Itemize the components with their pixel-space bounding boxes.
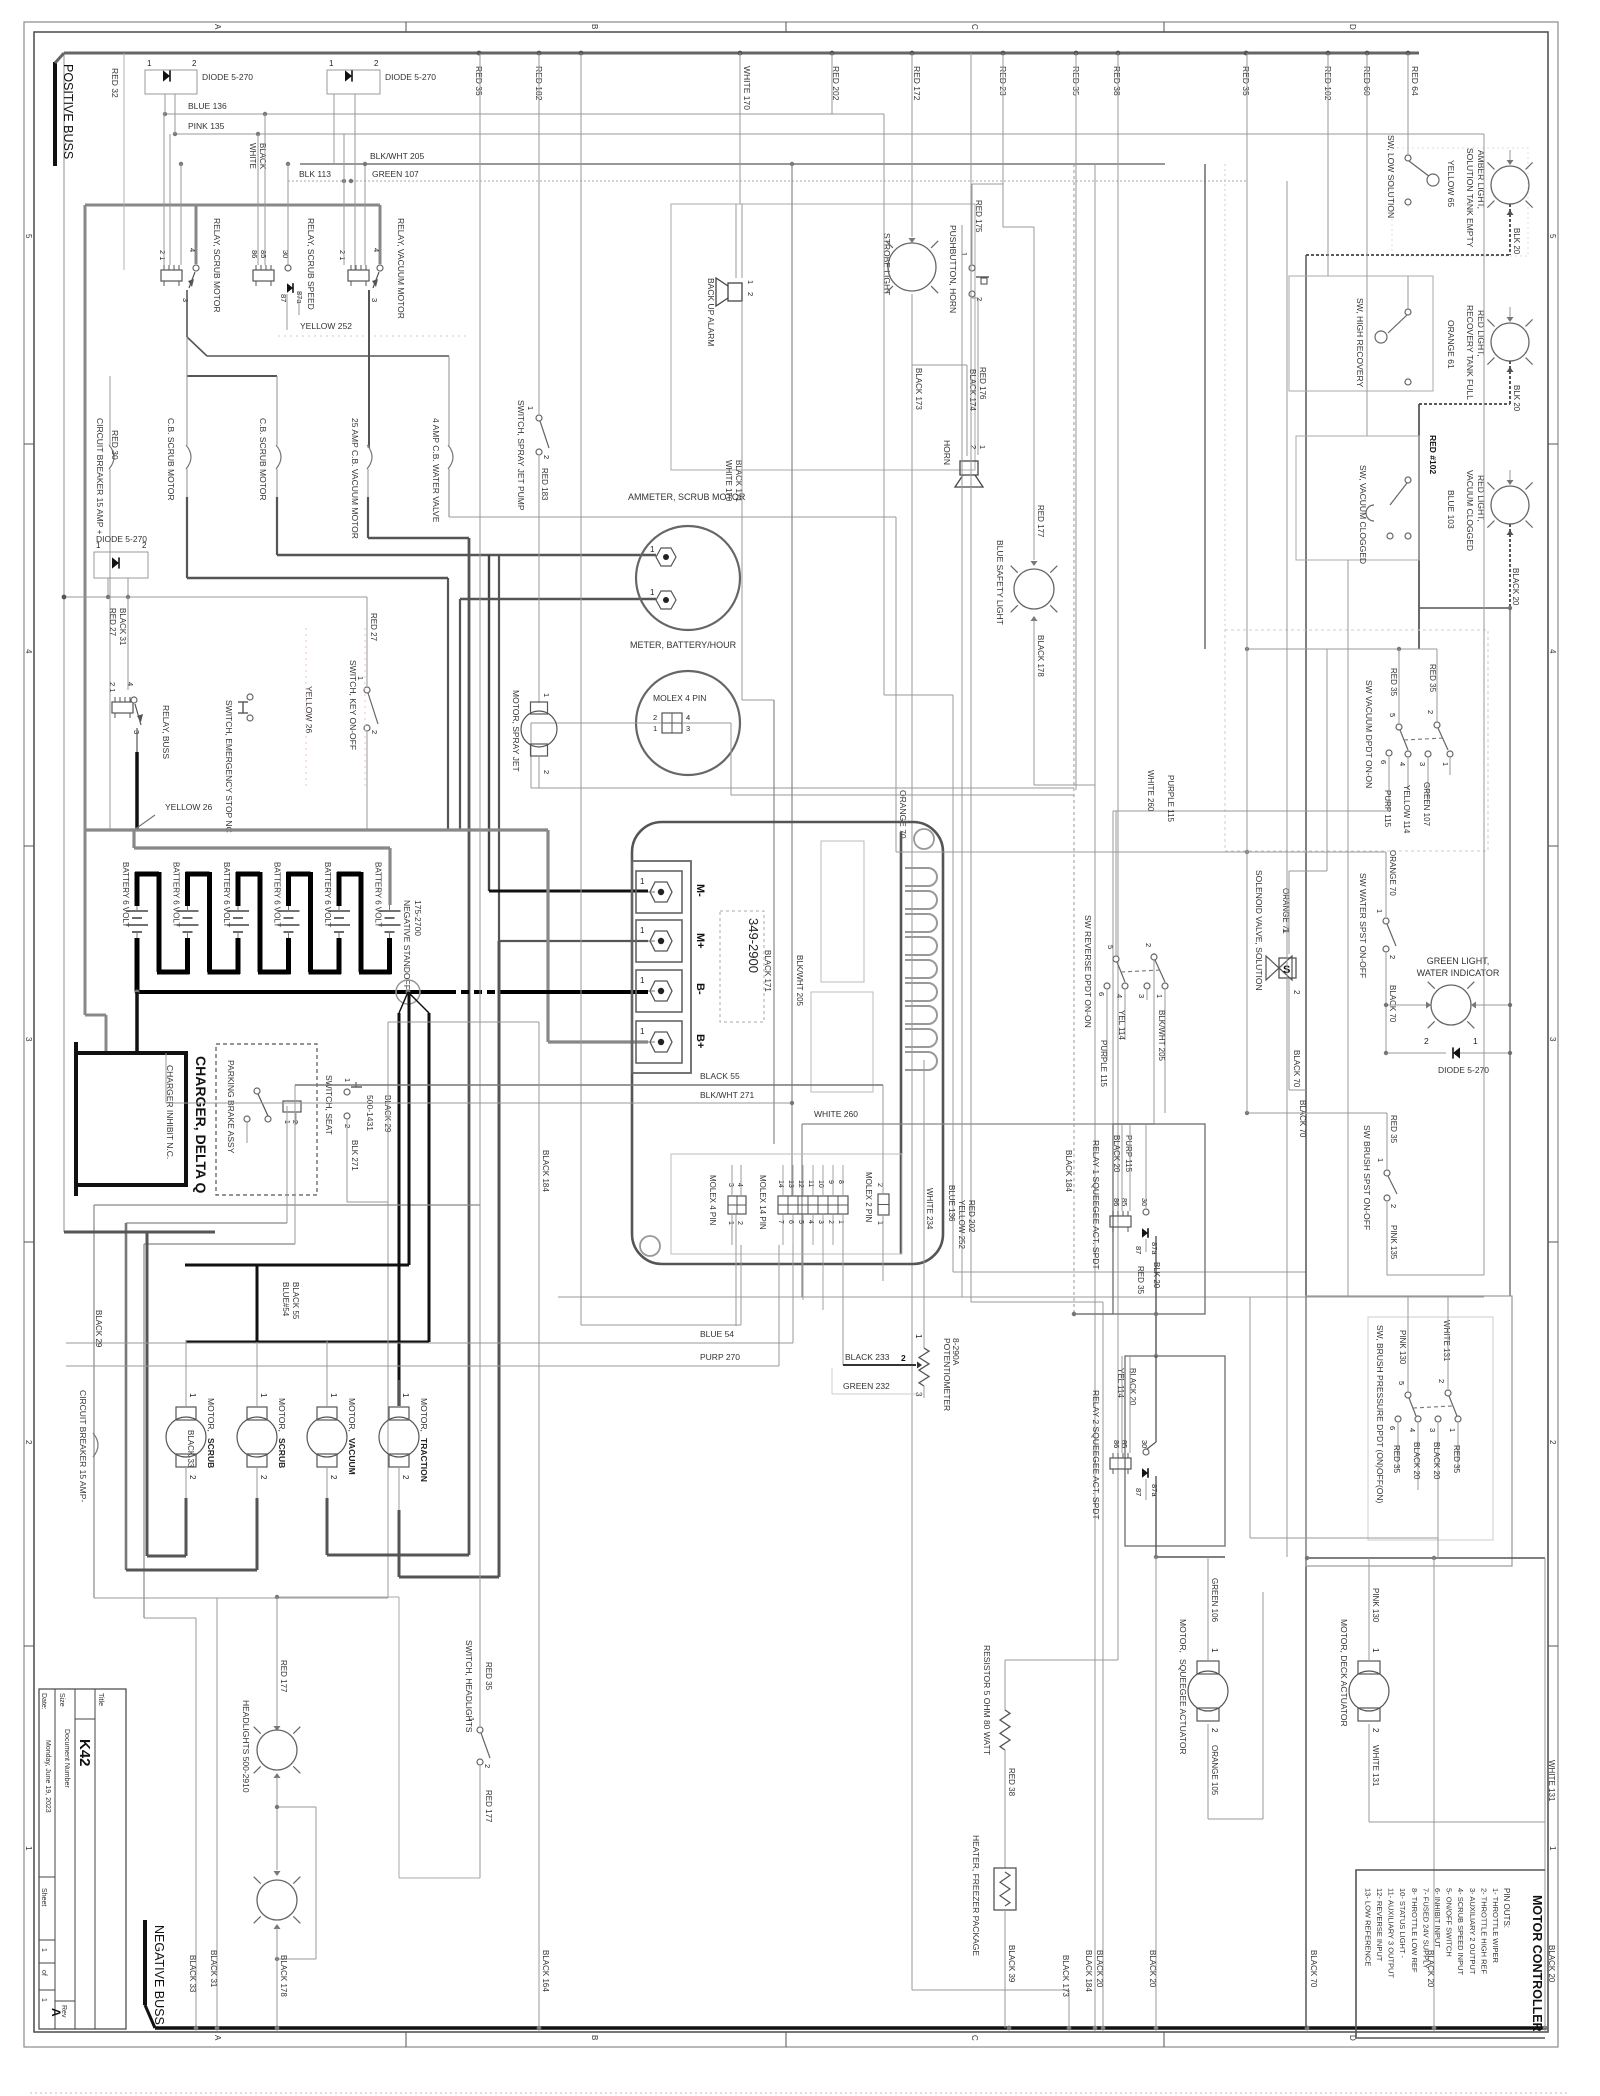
svg-text:BLUE#54: BLUE#54	[281, 1282, 290, 1317]
svg-text:3: 3	[24, 1037, 33, 1042]
svg-text:25 AMP C.B. VACUUM MOTOR: 25 AMP C.B. VACUUM MOTOR	[350, 418, 360, 539]
svg-text:SW WATER SPST ON-OFF: SW WATER SPST ON-OFF	[1358, 873, 1368, 978]
svg-text:2: 2	[1389, 1204, 1398, 1208]
svg-text:DIODE 5-270: DIODE 5-270	[1438, 1065, 1489, 1075]
svg-text:2: 2	[329, 1475, 338, 1480]
svg-text:BLK 113: BLK 113	[299, 169, 331, 179]
svg-text:1: 1	[640, 926, 645, 935]
svg-text:MOTOR,: MOTOR,	[277, 1398, 287, 1432]
svg-text:TRACTION: TRACTION	[419, 1438, 429, 1482]
svg-text:SW, BRUSH PRESSURE DPDT (ON)OF: SW, BRUSH PRESSURE DPDT (ON)OFF(ON)	[1375, 1325, 1385, 1504]
svg-text:2: 2	[1437, 1379, 1446, 1383]
svg-text:MOTOR, DECK ACTUATOR: MOTOR, DECK ACTUATOR	[1339, 1619, 1349, 1727]
svg-text:2: 2	[1388, 955, 1397, 959]
svg-text:BLACK: BLACK	[258, 143, 267, 170]
svg-text:A: A	[49, 2008, 63, 2017]
svg-text:A: A	[213, 24, 222, 30]
svg-text:BLACK 70: BLACK 70	[1292, 1050, 1301, 1088]
svg-text:RED 175: RED 175	[974, 200, 983, 233]
svg-text:M+: M+	[694, 933, 706, 949]
svg-text:RED 30: RED 30	[110, 430, 120, 460]
svg-text:BATTERY 6 VOLT: BATTERY 6 VOLT	[121, 862, 130, 927]
svg-text:YELLOW 26: YELLOW 26	[165, 802, 213, 812]
svg-text:RELAY 2 SQUEEGEE ACT. SPDT: RELAY 2 SQUEEGEE ACT. SPDT	[1091, 1390, 1101, 1520]
svg-text:6: 6	[1388, 1426, 1397, 1430]
svg-text:1: 1	[960, 252, 969, 256]
svg-text:349-2900: 349-2900	[746, 918, 761, 973]
svg-text:1: 1	[653, 724, 657, 733]
svg-text:1: 1	[467, 1717, 476, 1721]
svg-text:BLACK 20: BLACK 20	[1148, 1950, 1157, 1988]
svg-text:1: 1	[1448, 1428, 1457, 1432]
svg-text:1: 1	[542, 693, 551, 697]
svg-text:RED 38: RED 38	[1112, 66, 1122, 96]
svg-text:METER, BATTERY/HOUR: METER, BATTERY/HOUR	[630, 640, 737, 650]
svg-text:500-1431: 500-1431	[365, 1095, 375, 1131]
svg-text:3: 3	[1548, 1037, 1557, 1042]
svg-text:2: 2	[1548, 1440, 1557, 1445]
svg-text:YELLOW 65: YELLOW 65	[1446, 160, 1456, 208]
svg-text:YEL 114: YEL 114	[1116, 1368, 1125, 1398]
svg-text:RED 35: RED 35	[1392, 1445, 1401, 1474]
svg-text:PINK 130: PINK 130	[1371, 1588, 1380, 1623]
svg-text:2: 2	[1210, 1728, 1219, 1733]
svg-text:BLK 20: BLK 20	[1512, 385, 1521, 412]
svg-text:PURP 115: PURP 115	[1124, 1135, 1133, 1173]
svg-text:6: 6	[1379, 760, 1388, 764]
svg-text:1: 1	[727, 1221, 734, 1225]
svg-text:RELAY, VACUUM MOTOR: RELAY, VACUUM MOTOR	[396, 218, 406, 319]
svg-text:B: B	[590, 2035, 599, 2040]
svg-text:SWITCH, EMERGENCY STOP NC: SWITCH, EMERGENCY STOP NC	[224, 700, 234, 833]
svg-text:WHITE 234: WHITE 234	[925, 1188, 934, 1230]
svg-text:BLACK 173: BLACK 173	[1061, 1955, 1070, 1997]
svg-text:HEADLIGHTS 500-2910: HEADLIGHTS 500-2910	[241, 1700, 251, 1793]
svg-text:BLUE 103: BLUE 103	[1446, 490, 1456, 529]
svg-text:C: C	[970, 2035, 979, 2041]
svg-text:C.B. SCRUB MOTOR: C.B. SCRUB MOTOR	[258, 418, 268, 501]
svg-text:SW VACUUM DPDT ON-ON: SW VACUUM DPDT ON-ON	[1364, 680, 1374, 788]
svg-text:M-: M-	[694, 884, 706, 897]
svg-text:WHITE 170: WHITE 170	[724, 460, 733, 502]
svg-text:1: 1	[356, 676, 365, 680]
svg-text:PIN OUTS:: PIN OUTS:	[1502, 1888, 1511, 1928]
svg-text:2: 2	[188, 1475, 197, 1480]
svg-text:1: 1	[1376, 1158, 1385, 1162]
svg-text:BLACK 20: BLACK 20	[1511, 568, 1520, 606]
svg-text:3: 3	[1137, 994, 1146, 998]
svg-text:1: 1	[1441, 762, 1450, 766]
svg-text:1: 1	[343, 1078, 352, 1082]
svg-text:BATTERY 6 VOLT: BATTERY 6 VOLT	[172, 862, 181, 927]
svg-text:SQUEEGEE ACTUATOR: SQUEEGEE ACTUATOR	[1178, 1659, 1188, 1755]
svg-text:BLUE 136: BLUE 136	[947, 1185, 956, 1222]
svg-text:BLACK 70: BLACK 70	[1309, 1950, 1318, 1988]
svg-text:5: 5	[1548, 234, 1557, 239]
svg-text:SOLENOID VALVE, SOLUTION: SOLENOID VALVE, SOLUTION	[1254, 870, 1264, 991]
svg-text:DIODE 5-270: DIODE 5-270	[202, 72, 253, 82]
svg-text:SW, HIGH RECOVERY: SW, HIGH RECOVERY	[1355, 298, 1365, 387]
svg-text:6: 6	[1097, 992, 1106, 996]
svg-text:MOTOR,: MOTOR,	[1178, 1619, 1188, 1653]
svg-text:Sheet: Sheet	[40, 1888, 47, 1906]
svg-text:4: 4	[24, 649, 33, 654]
svg-text:4: 4	[686, 713, 690, 722]
svg-text:2: 2	[370, 730, 379, 734]
svg-text:BLK/WHT 205: BLK/WHT 205	[370, 151, 424, 161]
svg-text:1- THROTTLE WIPER: 1- THROTTLE WIPER	[1491, 1888, 1500, 1963]
svg-text:SW REVERSE DPDT ON-ON: SW REVERSE DPDT ON-ON	[1083, 915, 1093, 1028]
svg-text:4: 4	[1398, 762, 1407, 766]
svg-text:1: 1	[978, 445, 987, 449]
svg-text:HORN: HORN	[942, 440, 952, 465]
svg-text:87a: 87a	[1150, 1484, 1159, 1497]
svg-text:1: 1	[526, 406, 535, 410]
svg-text:4 AMP C.B. WATER VALVE: 4 AMP C.B. WATER VALVE	[431, 418, 441, 523]
svg-text:5: 5	[1397, 1381, 1406, 1385]
svg-text:BLACK 20: BLACK 20	[1112, 1135, 1121, 1173]
svg-text:1: 1	[1375, 909, 1384, 913]
svg-text:Document Number: Document Number	[63, 1729, 70, 1788]
svg-text:MOLEX 14 PIN: MOLEX 14 PIN	[758, 1175, 767, 1230]
svg-text:HEATER, FREEZER PACKAGE: HEATER, FREEZER PACKAGE	[971, 1835, 981, 1956]
svg-text:2: 2	[1426, 710, 1435, 714]
svg-text:2: 2	[542, 770, 551, 774]
svg-text:DIODE 5-270: DIODE 5-270	[385, 72, 436, 82]
svg-text:CHARGER, DELTA Q: CHARGER, DELTA Q	[193, 1056, 209, 1194]
svg-text:BACK UP ALARM: BACK UP ALARM	[706, 278, 716, 346]
svg-text:30: 30	[1140, 1198, 1149, 1206]
svg-text:1: 1	[1210, 1648, 1219, 1653]
svg-text:86: 86	[1112, 1440, 1121, 1448]
svg-text:30: 30	[281, 250, 290, 258]
svg-text:5: 5	[24, 234, 33, 239]
svg-text:YEL 114: YEL 114	[1117, 1010, 1126, 1040]
svg-text:4: 4	[1408, 1428, 1417, 1432]
svg-text:RED 27: RED 27	[108, 608, 117, 637]
svg-text:of: of	[40, 1970, 47, 1976]
svg-text:RED 202: RED 202	[967, 1200, 976, 1233]
svg-text:ORANGE 70: ORANGE 70	[898, 790, 908, 839]
svg-text:A: A	[213, 2035, 222, 2041]
svg-text:3: 3	[727, 1183, 734, 1187]
svg-text:BLK 271: BLK 271	[350, 1140, 359, 1171]
svg-text:2: 2	[259, 1475, 268, 1480]
svg-text:RED 35: RED 35	[484, 1662, 493, 1691]
svg-text:MOTOR CONTROLLER: MOTOR CONTROLLER	[1530, 1895, 1544, 2032]
svg-text:MOTOR,: MOTOR,	[206, 1398, 216, 1432]
svg-text:1: 1	[40, 1998, 47, 2002]
svg-text:BLK 20: BLK 20	[1512, 228, 1521, 255]
svg-text:GREEN 106: GREEN 106	[1210, 1578, 1219, 1623]
svg-text:BATTERY 6 VOLT: BATTERY 6 VOLT	[222, 862, 231, 927]
svg-text:2: 2	[736, 1221, 743, 1225]
svg-text:PURPLE 115: PURPLE 115	[1166, 775, 1175, 823]
svg-text:BLACK 31: BLACK 31	[118, 608, 127, 646]
svg-text:MOLEX 2 PIN: MOLEX 2 PIN	[864, 1172, 873, 1222]
svg-text:BLACK 178: BLACK 178	[279, 1955, 288, 1997]
svg-text:1: 1	[329, 1393, 338, 1398]
svg-text:1: 1	[914, 1334, 923, 1339]
svg-text:C: C	[970, 24, 979, 30]
svg-text:GREEN 107: GREEN 107	[372, 169, 419, 179]
svg-text:SWITCH, SPRAY JET PUMP: SWITCH, SPRAY JET PUMP	[516, 400, 526, 511]
svg-text:SW, LOW SOLUTION: SW, LOW SOLUTION	[1386, 135, 1396, 218]
svg-text:PARKING BRAKE ASSY: PARKING BRAKE ASSY	[226, 1060, 236, 1154]
svg-text:4: 4	[372, 248, 381, 252]
svg-text:ORANGE 61: ORANGE 61	[1446, 320, 1456, 369]
svg-text:2: 2	[746, 292, 755, 296]
svg-text:RED 35: RED 35	[1428, 664, 1437, 693]
svg-text:WHITE 170: WHITE 170	[742, 66, 752, 110]
svg-text:BATTERY 6 VOLT: BATTERY 6 VOLT	[273, 862, 282, 927]
svg-text:WHITE 260: WHITE 260	[1146, 770, 1155, 812]
svg-text:Size: Size	[58, 1693, 65, 1707]
svg-text:BLACK 164: BLACK 164	[541, 1950, 550, 1992]
svg-text:VACUUM: VACUUM	[347, 1438, 357, 1475]
svg-text:GREEN 232: GREEN 232	[843, 1381, 890, 1391]
svg-text:3: 3	[686, 724, 690, 733]
svg-text:BLACK 174: BLACK 174	[968, 369, 977, 411]
svg-text:SWITCH, KEY ON-OFF: SWITCH, KEY ON-OFF	[348, 660, 358, 750]
svg-text:BLACK 55: BLACK 55	[291, 1282, 300, 1320]
svg-text:6- INHIBIT INPUT: 6- INHIBIT INPUT	[1433, 1888, 1442, 1948]
svg-text:RED 64: RED 64	[1410, 66, 1420, 96]
svg-text:87a: 87a	[1150, 1242, 1159, 1255]
svg-text:BLUE SAFETY LIGHT: BLUE SAFETY LIGHT	[995, 540, 1005, 625]
svg-text:YELLOW 114: YELLOW 114	[1402, 785, 1411, 834]
svg-text:2 1: 2 1	[108, 682, 117, 692]
svg-text:BLACK 20: BLACK 20	[1412, 1442, 1421, 1480]
svg-text:1: 1	[640, 976, 645, 985]
svg-text:12- REVERSE INPUT: 12- REVERSE INPUT	[1375, 1888, 1384, 1962]
svg-text:YELLOW 252: YELLOW 252	[957, 1200, 966, 1249]
svg-text:1: 1	[147, 59, 152, 68]
svg-text:BLACK 70: BLACK 70	[1298, 1100, 1307, 1138]
svg-text:BLK/WHT 271: BLK/WHT 271	[700, 1090, 754, 1100]
svg-text:SWITCH, SEAT: SWITCH, SEAT	[324, 1075, 334, 1135]
svg-text:RED 32: RED 32	[110, 68, 120, 98]
svg-text:GREEN 107: GREEN 107	[1422, 782, 1431, 827]
svg-text:2: 2	[483, 1764, 492, 1768]
svg-text:POSITIVE BUSS: POSITIVE BUSS	[61, 64, 75, 159]
svg-text:RELAY, BUSS: RELAY, BUSS	[161, 705, 171, 759]
svg-text:BLACK 33: BLACK 33	[186, 1430, 195, 1468]
svg-text:MOTOR,: MOTOR,	[419, 1398, 429, 1432]
svg-text:87: 87	[1134, 1246, 1143, 1254]
svg-text:4: 4	[188, 248, 197, 252]
svg-text:MOTOR, SPRAY JET: MOTOR, SPRAY JET	[511, 690, 521, 772]
svg-text:Title: Title	[97, 1693, 104, 1706]
svg-text:PINK 130: PINK 130	[1398, 1330, 1407, 1365]
svg-text:2: 2	[401, 1475, 410, 1480]
svg-text:WHITE 131: WHITE 131	[1547, 1760, 1556, 1802]
svg-text:30: 30	[1140, 1440, 1149, 1448]
svg-text:1: 1	[1548, 1846, 1557, 1851]
svg-text:1: 1	[650, 545, 655, 554]
svg-text:WHITE 131: WHITE 131	[1442, 1320, 1451, 1362]
svg-text:2: 2	[1371, 1728, 1380, 1733]
svg-text:BLK/WHT 205: BLK/WHT 205	[795, 955, 804, 1007]
svg-text:BLACK 70: BLACK 70	[1388, 985, 1397, 1023]
svg-text:NEGATIVE BUSS: NEGATIVE BUSS	[152, 1925, 166, 2025]
svg-text:BLACK 233: BLACK 233	[845, 1352, 890, 1362]
svg-text:2: 2	[653, 713, 657, 722]
svg-text:2: 2	[24, 1440, 33, 1445]
svg-text:10- STATUS LIGHT -: 10- STATUS LIGHT -	[1398, 1888, 1407, 1959]
svg-text:BLACK 55: BLACK 55	[700, 1071, 740, 1081]
svg-text:SCRUB: SCRUB	[206, 1438, 216, 1468]
svg-text:Monday, June 19, 2023: Monday, June 19, 2023	[44, 1740, 51, 1813]
svg-text:2: 2	[1424, 1036, 1429, 1046]
svg-text:2: 2	[374, 59, 379, 68]
svg-text:PINK 135: PINK 135	[188, 121, 225, 131]
svg-text:RED 38: RED 38	[1007, 1768, 1016, 1797]
svg-text:2 1: 2 1	[158, 250, 167, 260]
svg-text:1: 1	[650, 588, 655, 597]
svg-text:BLUE 136: BLUE 136	[188, 101, 227, 111]
svg-text:WHITE 131: WHITE 131	[1371, 1745, 1380, 1787]
svg-text:11- AUXILIARY 3 OUTPUT: 11- AUXILIARY 3 OUTPUT	[1387, 1888, 1396, 1978]
svg-text:K42: K42	[76, 1739, 93, 1767]
svg-text:RELAY 1 SQUEEGEE ACT. SPDT: RELAY 1 SQUEEGEE ACT. SPDT	[1091, 1140, 1101, 1270]
svg-text:1: 1	[1155, 994, 1164, 998]
svg-text:SW BRUSH SPST ON-OFF: SW BRUSH SPST ON-OFF	[1362, 1125, 1372, 1230]
svg-text:ORANGE 105: ORANGE 105	[1210, 1745, 1219, 1796]
svg-text:BLACK 184: BLACK 184	[1064, 1150, 1073, 1192]
svg-text:MOLEX 4 PIN: MOLEX 4 PIN	[708, 1175, 717, 1225]
svg-text:C.B. SCRUB MOTOR: C.B. SCRUB MOTOR	[166, 418, 176, 501]
svg-text:RELAY, SCRUB MOTOR: RELAY, SCRUB MOTOR	[212, 218, 222, 312]
svg-text:175-2700: 175-2700	[413, 900, 423, 936]
svg-text:RED 27: RED 27	[369, 613, 378, 642]
svg-text:WATER INDICATOR: WATER INDICATOR	[1417, 968, 1500, 978]
svg-text:5: 5	[1388, 713, 1397, 717]
svg-text:2: 2	[192, 59, 197, 68]
svg-text:3: 3	[1418, 762, 1427, 766]
svg-text:MOLEX 4 PIN: MOLEX 4 PIN	[653, 693, 706, 703]
svg-text:BLACK 184: BLACK 184	[1084, 1950, 1093, 1992]
svg-text:RED 35: RED 35	[474, 66, 484, 96]
svg-text:1: 1	[876, 1221, 883, 1225]
svg-text:1: 1	[746, 280, 755, 284]
svg-text:RELAY, SCRUB SPEED: RELAY, SCRUB SPEED	[306, 218, 316, 310]
svg-text:3: 3	[370, 298, 379, 302]
svg-text:BLACK 178: BLACK 178	[1036, 635, 1045, 677]
svg-text:4: 4	[1548, 649, 1557, 654]
svg-text:5: 5	[1106, 945, 1115, 949]
svg-text:GREEN LIGHT,: GREEN LIGHT,	[1427, 956, 1490, 966]
svg-text:1: 1	[640, 1027, 645, 1036]
svg-text:BLACK 20: BLACK 20	[1432, 1442, 1441, 1480]
svg-text:CIRCUIT BREAKER 15 AMP +: CIRCUIT BREAKER 15 AMP +	[95, 418, 105, 535]
svg-text:YELLOW 26: YELLOW 26	[304, 686, 314, 734]
svg-text:MOTOR,: MOTOR,	[347, 1398, 357, 1432]
svg-text:B: B	[590, 24, 599, 29]
svg-text:ORANGE 70: ORANGE 70	[1388, 850, 1397, 896]
svg-text:B+: B+	[694, 1034, 706, 1048]
svg-text:BLACK 31: BLACK 31	[209, 1950, 218, 1988]
svg-text:BLACK 20: BLACK 20	[1547, 1945, 1556, 1983]
svg-text:1: 1	[1371, 1648, 1380, 1653]
svg-text:BLK/WHT 205: BLK/WHT 205	[1157, 1010, 1166, 1062]
svg-text:NEGATIVE STANDOFF: NEGATIVE STANDOFF	[402, 900, 412, 990]
svg-text:WHITE 260: WHITE 260	[814, 1109, 858, 1119]
svg-text:BLACK 20: BLACK 20	[1095, 1950, 1104, 1988]
svg-text:1: 1	[329, 59, 334, 68]
svg-text:BLK 20: BLK 20	[1152, 1262, 1161, 1289]
svg-text:PUSHBUTTON, HORN: PUSHBUTTON, HORN	[948, 225, 958, 313]
svg-text:RED 172: RED 172	[912, 66, 922, 101]
svg-text:PURP 115: PURP 115	[1383, 790, 1392, 828]
svg-text:1: 1	[259, 1393, 268, 1398]
svg-text:PURP 270: PURP 270	[700, 1352, 740, 1362]
svg-text:BLACK 20: BLACK 20	[1128, 1368, 1137, 1406]
svg-text:87: 87	[1134, 1488, 1143, 1496]
svg-text:5- ON/OFF SWITCH: 5- ON/OFF SWITCH	[1445, 1888, 1454, 1957]
svg-text:RED 177: RED 177	[484, 1790, 493, 1823]
svg-text:1: 1	[401, 1393, 410, 1398]
svg-text:3: 3	[1428, 1428, 1437, 1432]
svg-text:VACUUM CLOGGED: VACUUM CLOGGED	[1465, 470, 1475, 551]
svg-text:2: 2	[901, 1353, 906, 1363]
svg-text:1: 1	[24, 1846, 33, 1851]
svg-text:4: 4	[1115, 994, 1124, 998]
svg-text:BATTERY 6 VOLT: BATTERY 6 VOLT	[374, 862, 383, 927]
svg-text:2 1: 2 1	[338, 250, 347, 260]
svg-text:B-: B-	[694, 983, 706, 995]
svg-text:BLACK 33: BLACK 33	[188, 1955, 197, 1993]
svg-text:BLACK 173: BLACK 173	[914, 368, 923, 410]
svg-text:1: 1	[640, 877, 645, 886]
svg-text:SCRUB: SCRUB	[277, 1438, 287, 1468]
svg-text:4- SCRUB SPEED INPUT: 4- SCRUB SPEED INPUT	[1456, 1888, 1465, 1976]
svg-text:PINK 135: PINK 135	[1389, 1225, 1398, 1260]
svg-text:RED #102: RED #102	[1428, 435, 1438, 474]
svg-text:2: 2	[1144, 943, 1153, 947]
svg-text:RED 35: RED 35	[1452, 1445, 1461, 1474]
svg-text:D: D	[1348, 24, 1357, 30]
svg-text:DIODE 5-270: DIODE 5-270	[96, 534, 147, 544]
svg-text:86: 86	[1112, 1198, 1121, 1206]
svg-text:2- THROTTLE HIGH REF: 2- THROTTLE HIGH REF	[1479, 1888, 1488, 1975]
svg-text:CIRCUIT BREAKER 15 AMP-: CIRCUIT BREAKER 15 AMP-	[78, 1390, 88, 1502]
svg-text:BLACK 29: BLACK 29	[94, 1310, 103, 1348]
svg-text:BATTERY 6 VOLT: BATTERY 6 VOLT	[323, 862, 332, 927]
svg-text:Date:: Date:	[40, 1693, 47, 1710]
svg-text:4: 4	[736, 1183, 743, 1187]
svg-text:RED 177: RED 177	[1036, 505, 1045, 538]
svg-text:PURPLE 115: PURPLE 115	[1099, 1040, 1108, 1088]
svg-text:RED 35: RED 35	[1389, 1115, 1398, 1144]
svg-text:RED 35: RED 35	[1136, 1266, 1145, 1295]
svg-text:YELLOW 252: YELLOW 252	[300, 321, 352, 331]
svg-text:1: 1	[1473, 1036, 1478, 1046]
svg-text:13- LOW REFERENCE: 13- LOW REFERENCE	[1363, 1888, 1372, 1966]
svg-text:2: 2	[969, 445, 978, 449]
svg-text:BLACK 39: BLACK 39	[1007, 1945, 1016, 1983]
svg-text:BLUE 54: BLUE 54	[700, 1329, 734, 1339]
svg-text:3- AUXILIARY 2 OUTPUT: 3- AUXILIARY 2 OUTPUT	[1468, 1888, 1477, 1975]
svg-text:WHITE: WHITE	[248, 143, 257, 169]
svg-text:2: 2	[542, 455, 551, 459]
svg-text:BLACK 184: BLACK 184	[541, 1150, 550, 1192]
svg-text:7- FUSED 24V SUPPLY: 7- FUSED 24V SUPPLY	[1421, 1888, 1430, 1969]
svg-text:4: 4	[126, 682, 135, 686]
svg-text:RESISTOR 5 OHM 80 WATT: RESISTOR 5 OHM 80 WATT	[982, 1645, 992, 1755]
svg-text:2: 2	[876, 1183, 883, 1187]
svg-text:1: 1	[188, 1393, 197, 1398]
